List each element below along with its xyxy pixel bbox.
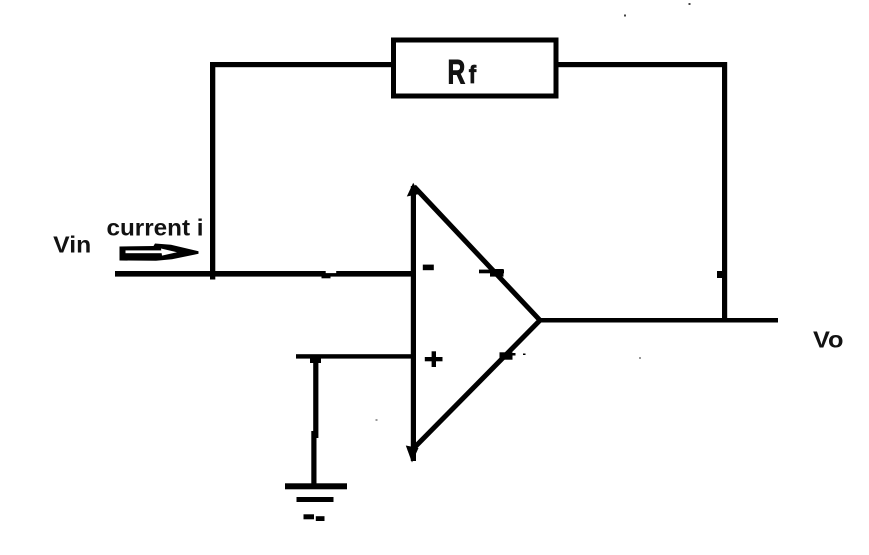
- wire: output: [539, 318, 779, 323]
- wire: feedback left vertical: [210, 62, 215, 280]
- svg-text:R: R: [448, 54, 466, 92]
- wire: feedback top-right horizontal: [556, 62, 727, 67]
- wire: feedback right vertical: [722, 62, 727, 321]
- stray tick on op-amp bottom edge: [500, 352, 526, 359]
- current direction arrow: [120, 244, 199, 261]
- wire: feedback top-left horizontal: [210, 62, 393, 67]
- op-amp U1: [406, 183, 540, 463]
- svg-text:current i: current i: [107, 215, 204, 241]
- ground: [285, 483, 347, 521]
- resistor Rf: [394, 40, 557, 96]
- wire: non-inverting input: [296, 354, 415, 363]
- junction tick on right vertical wire: [717, 271, 724, 278]
- stray dots: [376, 3, 691, 421]
- op-amp inverting input '-' sign: [423, 265, 434, 271]
- op-amp non-inverting input '+' sign: [425, 351, 443, 367]
- svg-text:Vin: Vin: [53, 232, 91, 258]
- svg-text:f: f: [469, 61, 477, 89]
- stray tick crossing op-amp top edge: [479, 269, 504, 277]
- svg-text:Vo: Vo: [813, 327, 844, 353]
- wire: input to inverting node: [115, 270, 415, 279]
- wire: ground vertical: [311, 356, 318, 487]
